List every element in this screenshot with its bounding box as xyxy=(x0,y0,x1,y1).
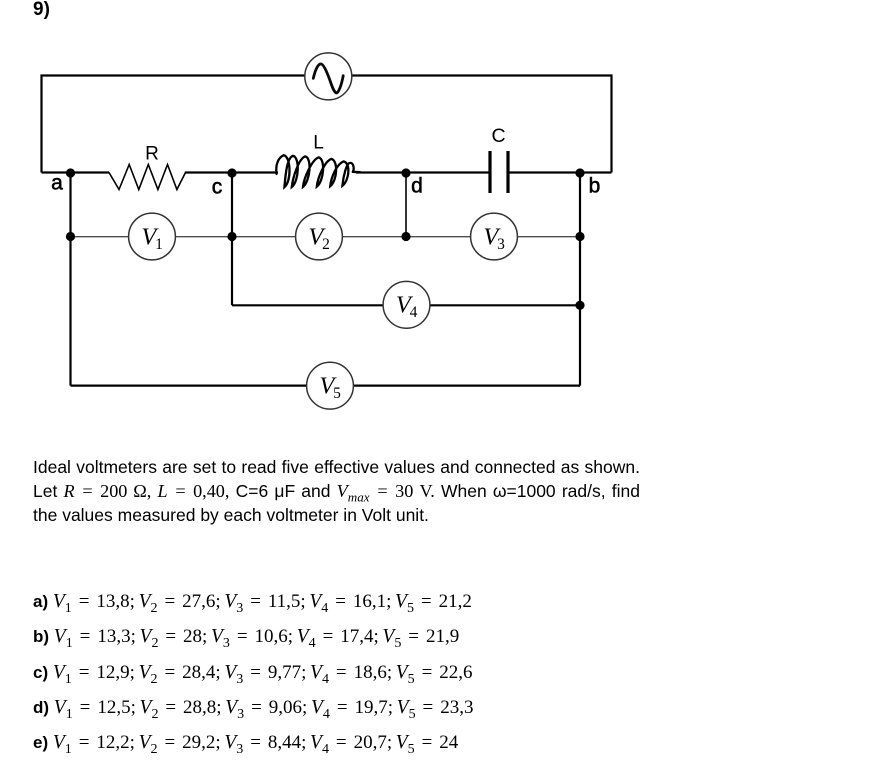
svg-text:a: a xyxy=(51,172,63,195)
capacitor C1 plates xyxy=(490,151,508,193)
wire V4 row xyxy=(232,304,580,306)
wire top loop right segment xyxy=(353,76,612,173)
voltmeter V5 xyxy=(307,362,354,409)
AC source U1 xyxy=(305,53,352,100)
answer option c xyxy=(33,662,473,684)
node d junction dot xyxy=(401,168,410,177)
junction dot b-row1 xyxy=(575,232,584,241)
voltmeter V2 xyxy=(296,213,343,260)
junction dot b-V4row xyxy=(575,301,584,310)
junction dot c-row1 xyxy=(227,232,236,241)
answer option b xyxy=(33,626,459,648)
wire main: capacitor to right edge xyxy=(509,171,612,173)
svg-text:c: c xyxy=(212,176,223,199)
svg-text:R: R xyxy=(145,144,159,165)
svg-text:b: b xyxy=(589,175,601,198)
inductor L1 coil xyxy=(276,155,360,187)
voltmeter V3 xyxy=(471,213,518,260)
wire column b xyxy=(579,173,581,386)
node b junction dot xyxy=(575,168,584,177)
svg-text:2: 2 xyxy=(322,236,330,253)
svg-text:1: 1 xyxy=(155,236,163,253)
problem statement paragraph xyxy=(33,456,640,527)
node c junction dot xyxy=(227,168,236,177)
svg-text:d: d xyxy=(411,175,423,198)
svg-text:5: 5 xyxy=(333,385,341,402)
node a junction dot xyxy=(66,168,75,177)
circuit schematic xyxy=(0,0,892,450)
resistor R1 zigzag xyxy=(109,165,186,190)
answer option a xyxy=(33,591,472,613)
junction dot d-row1 xyxy=(401,232,410,241)
voltmeter V4 xyxy=(383,281,430,328)
wire voltmeter row 1 xyxy=(71,236,581,238)
answer option e xyxy=(33,732,458,754)
wire main: inductor to capacitor xyxy=(356,171,490,173)
wire column a xyxy=(69,173,71,386)
wire V5 row xyxy=(71,385,581,387)
wire column d xyxy=(405,173,407,237)
svg-text:4: 4 xyxy=(410,304,418,321)
wire main: resistor to inductor xyxy=(186,171,278,173)
wire column c xyxy=(231,173,233,306)
svg-text:C: C xyxy=(491,125,505,147)
problem number xyxy=(33,0,50,21)
voltmeter V1 xyxy=(129,213,176,260)
svg-text:3: 3 xyxy=(497,236,505,253)
wire top loop left segment xyxy=(42,76,305,173)
junction dot a-row1 xyxy=(66,232,75,241)
wire main: a to resistor xyxy=(42,171,110,173)
svg-text:L: L xyxy=(313,133,324,154)
answer option d xyxy=(33,697,473,719)
